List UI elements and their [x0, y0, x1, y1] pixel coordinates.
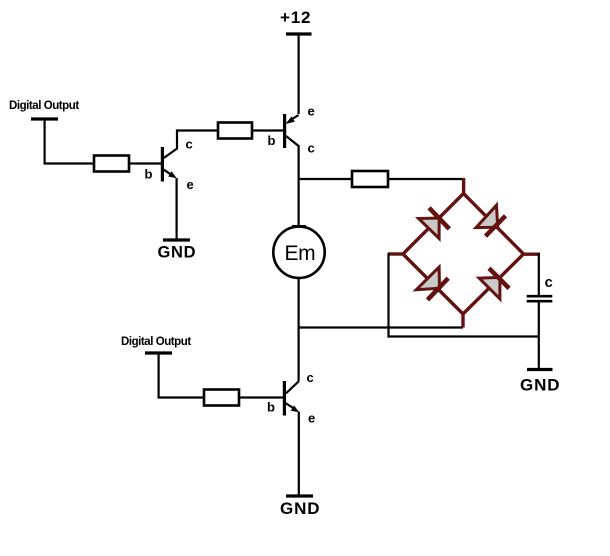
svg-text:GND: GND — [520, 376, 560, 395]
motor Em — [273, 227, 324, 278]
digital output 1 terminal bar — [31, 117, 58, 120]
wire node to bridge bottom — [299, 326, 463, 328]
bridge edge bottom-right — [463, 254, 524, 314]
bridge right vertex stub — [523, 252, 540, 255]
svg-text:b: b — [145, 167, 153, 182]
bridge bottom vertex stub — [461, 314, 464, 328]
diode D4 (bottom-right) — [479, 268, 509, 299]
bridge edge top-left — [403, 194, 464, 255]
wire motor to Q3 collector — [298, 278, 300, 382]
wire Q1 emitter to ground — [176, 178, 178, 240]
resistor R3 — [352, 171, 388, 187]
svg-text:GND: GND — [280, 499, 320, 518]
svg-text:c: c — [545, 275, 553, 291]
svg-text:Digital Output: Digital Output — [121, 336, 191, 348]
wire right vertex to capacitor — [538, 253, 540, 295]
svg-text:Digital Output: Digital Output — [9, 100, 79, 112]
transistor Q3 collector diagonal — [286, 382, 299, 394]
wire left vertex to cap rail — [389, 253, 539, 337]
bridge edge bottom-left — [403, 254, 463, 314]
svg-text:+12: +12 — [280, 8, 311, 27]
wire R2 to Q2 base — [252, 129, 284, 131]
svg-text:c: c — [186, 137, 193, 152]
diode D1 (top-left) — [419, 208, 450, 239]
bridge top vertex stub — [462, 178, 465, 195]
wire input 2 to R4 — [159, 353, 204, 398]
wire node to R3 — [299, 178, 352, 180]
svg-text:e: e — [187, 177, 194, 192]
svg-text:Em: Em — [285, 242, 316, 265]
transistor Q1 (NPN) base bar — [161, 147, 164, 182]
svg-text:e: e — [308, 104, 315, 119]
svg-text:b: b — [268, 133, 276, 148]
capacitor C1 top plate — [527, 295, 553, 298]
transistor Q1 emitter diagonal with arrow — [163, 169, 176, 178]
transistor Q2 collector diagonal — [286, 136, 299, 146]
wire Q3 emitter to ground — [298, 412, 300, 497]
transistor Q2 (PNP) base bar — [283, 114, 286, 148]
transistor Q3 (NPN) base bar — [283, 381, 286, 416]
+12 rail bar — [286, 32, 312, 35]
svg-text:e: e — [308, 411, 315, 426]
diode D2 (top-right) — [476, 205, 506, 236]
resistor R1 — [94, 156, 129, 172]
ground bar (right) — [527, 368, 553, 371]
bridge edge top-right — [464, 194, 524, 255]
wire R1 to Q1 base — [129, 162, 161, 164]
wire R4 to Q3 base — [239, 396, 283, 398]
capacitor C1 bottom plate — [527, 300, 553, 303]
resistor R4 — [204, 390, 239, 406]
transistor Q3 emitter diagonal with arrow — [285, 403, 299, 412]
digital output 2 terminal bar — [145, 351, 172, 354]
diode D3 (bottom-left) — [416, 267, 448, 300]
bridge left vertex stub — [389, 252, 404, 255]
transistor Q2 emitter diagonal with arrow into base — [285, 115, 298, 124]
resistor R2 — [218, 123, 252, 139]
wire Q2 collector to motor — [298, 145, 300, 227]
svg-text:c: c — [308, 141, 315, 156]
wire R3 to bridge top vertex — [388, 178, 465, 180]
ground bar (left) — [163, 238, 190, 241]
svg-text:b: b — [267, 400, 275, 415]
svg-text:c: c — [307, 370, 314, 385]
wire Q1 collector to R2 — [164, 131, 218, 159]
wire input 1 to R1 — [45, 119, 94, 164]
ground bar (bottom) — [286, 494, 313, 497]
wire capacitor to ground — [538, 301, 540, 370]
wire +12 rail to Q2 emitter — [298, 34, 300, 114]
svg-text:GND: GND — [158, 244, 197, 262]
